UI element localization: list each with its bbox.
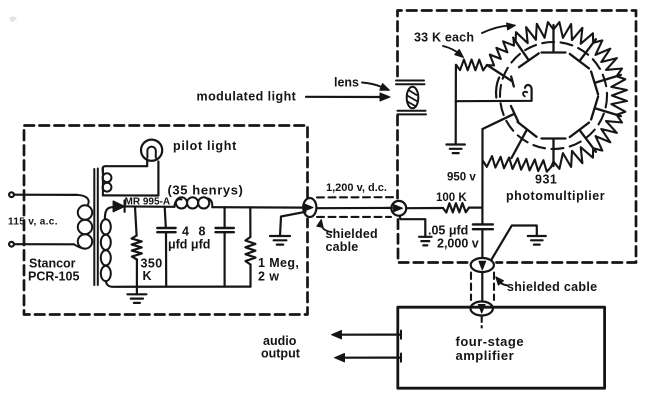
dynode electrode at -53 deg xyxy=(570,123,596,152)
dynode electrode at -17 deg xyxy=(591,97,621,120)
wire: bottom terminal to transformer primary xyxy=(14,243,74,245)
svg-text:photomultiplier: photomultiplier xyxy=(506,189,605,203)
dashed stub into amplifier xyxy=(481,317,483,328)
transformer HV secondary winding xyxy=(101,219,111,234)
choke L1 (35 henrys) xyxy=(175,199,182,207)
transformer primary winding xyxy=(77,195,89,205)
ground (output cable shield) xyxy=(492,226,537,260)
dynode electrode at 155 deg xyxy=(487,65,514,87)
shield (dashed) of horizontal cable xyxy=(317,197,393,217)
svg-text:115 v, a.c.: 115 v, a.c. xyxy=(8,217,58,228)
pilot light I1 xyxy=(141,140,162,161)
vertical shielded cable to amplifier xyxy=(481,272,483,302)
connector: power supply output grommet xyxy=(303,198,316,217)
dynode electrode at 125 deg xyxy=(513,38,539,67)
svg-text:PCR-105: PCR-105 xyxy=(28,270,79,284)
ground (near output connector, B- ) xyxy=(280,212,306,236)
four-stage amplifier box xyxy=(398,307,605,388)
wire: bottom return rail xyxy=(106,281,251,287)
capacitor .05 ufd 2000v xyxy=(473,224,493,229)
photomultiplier enclosure (dashed box) xyxy=(398,11,637,263)
audio output arrow 2 xyxy=(343,357,401,359)
resistor 33K first (to cathode line) xyxy=(456,60,487,71)
connector: PM box input grommet xyxy=(391,201,406,216)
wire: top terminal to transformer primary xyxy=(14,194,77,196)
svg-text:.05 μfd: .05 μfd xyxy=(428,224,468,238)
ground (cathode) xyxy=(446,145,465,154)
resistor 33K last (to 950v line) xyxy=(483,156,552,172)
ground (power supply rail) xyxy=(136,286,138,294)
svg-text:amplifier: amplifier xyxy=(456,348,515,363)
svg-text:K: K xyxy=(143,269,152,283)
svg-text:modulated light: modulated light xyxy=(197,90,297,104)
wire: pilot light loop to pilot winding xyxy=(103,161,148,173)
wire: cathode bleeder vertical xyxy=(455,65,457,145)
terminal (115v bottom) xyxy=(9,242,14,247)
resistor 100K xyxy=(406,207,443,209)
connector: amplifier input grommet xyxy=(471,302,493,316)
svg-text:4: 4 xyxy=(182,225,189,239)
dynode electrode at 53 deg xyxy=(570,39,596,68)
wire: 1200v dc line between connectors xyxy=(317,207,393,210)
dynode electrode at -90 deg xyxy=(542,139,566,167)
svg-text:33 K each: 33 K each xyxy=(414,31,474,45)
svg-text:950 v: 950 v xyxy=(447,172,476,184)
wire: anode/950v vertical line xyxy=(481,129,483,224)
svg-text:shielded cable: shielded cable xyxy=(507,280,597,294)
power supply enclosure (dashed box) xyxy=(24,126,308,315)
audio output arrow 1 xyxy=(340,334,401,336)
svg-text:8: 8 xyxy=(199,225,206,239)
transformer pilot winding xyxy=(103,173,112,182)
svg-text:μfd μfd: μfd μfd xyxy=(168,238,210,252)
scan smudge xyxy=(9,17,17,23)
svg-text:931: 931 xyxy=(535,173,557,187)
lens (hatched ellipse) xyxy=(407,87,419,109)
svg-text:(35 henrys): (35 henrys) xyxy=(168,183,244,198)
svg-text:cable: cable xyxy=(326,240,359,254)
svg-text:100 K: 100 K xyxy=(436,192,467,204)
dynode resistor ring (33K each) xyxy=(516,22,627,169)
resistor 33K second (chord) xyxy=(487,39,514,66)
svg-text:2 w: 2 w xyxy=(258,270,279,284)
diode MR 995-A xyxy=(105,207,113,219)
svg-text:pilot light: pilot light xyxy=(173,139,237,153)
wire: B+ line diode to choke xyxy=(125,205,175,208)
capacitor C1 4 ufd xyxy=(165,207,166,228)
svg-text:output: output xyxy=(261,347,301,361)
resistor R 350K xyxy=(135,207,137,236)
svg-text:four-stage: four-stage xyxy=(456,334,525,349)
ground (PM input shield) xyxy=(400,216,426,237)
photocathode plate xyxy=(496,78,499,98)
svg-text:2,000 v: 2,000 v xyxy=(437,237,479,251)
svg-text:lens: lens xyxy=(334,76,359,90)
svg-text:shielded: shielded xyxy=(326,227,378,241)
dynode electrode at 17 deg xyxy=(591,72,621,95)
capacitor C2 8 ufd xyxy=(224,207,226,228)
svg-text:1,200 v, d.c.: 1,200 v, d.c. xyxy=(326,182,387,194)
wire: B+ line choke to connector xyxy=(212,206,306,209)
svg-text:Stancor: Stancor xyxy=(29,257,76,271)
svg-text:1 Meg,: 1 Meg, xyxy=(258,256,299,270)
connector: PM box output grommet xyxy=(471,258,494,272)
931 photomultiplier tube envelope (dashed circle) xyxy=(500,42,607,149)
dynode electrode at 205 deg xyxy=(483,106,519,129)
transformer T1 core xyxy=(94,169,98,286)
dynode electrode at 90 deg xyxy=(542,25,566,53)
dynode electrode at -128 deg xyxy=(512,122,537,158)
anode lead and hook xyxy=(456,85,532,101)
terminal (115v top) xyxy=(9,192,14,197)
resistor R 1 Meg 2 w xyxy=(249,207,251,237)
lens mount brackets xyxy=(396,81,425,85)
